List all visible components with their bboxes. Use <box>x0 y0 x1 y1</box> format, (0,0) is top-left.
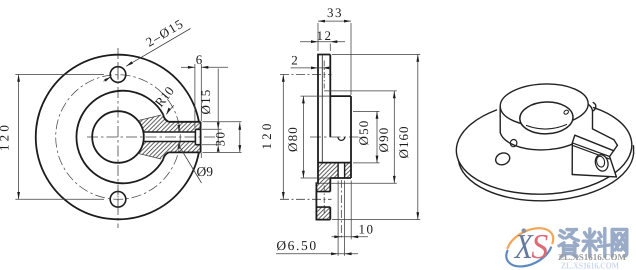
lug hole outer <box>594 153 610 172</box>
lug right top corner edge <box>614 140 618 146</box>
dim 120 ext bottom <box>15 198 104 200</box>
bolt hole top <box>110 67 126 83</box>
dim D90 ext lines <box>316 91 397 183</box>
dim D90 arrows <box>393 91 396 183</box>
counterbore rect <box>195 129 200 144</box>
dim D15 ext top <box>202 128 222 130</box>
dim D160 line <box>417 54 419 219</box>
svg-text:Ø80: Ø80 <box>285 126 300 152</box>
main centerline <box>310 136 359 138</box>
hole centerline ext <box>340 180 342 239</box>
dim D50 line <box>376 111 378 162</box>
hub silhouette fill <box>500 105 592 154</box>
dim 120 dimension line <box>18 75 20 200</box>
CJK char zi <box>559 230 579 257</box>
dim 30 line <box>239 123 241 153</box>
logo X dot <box>522 228 527 233</box>
dim D15 line <box>217 69 219 145</box>
plate outline <box>316 55 330 220</box>
hub right silhouette <box>589 105 593 129</box>
dim 120s arrows <box>282 75 285 200</box>
hatch region plate+hub lower <box>316 163 351 192</box>
dim D15 arrow top <box>217 122 220 129</box>
dim D90 line <box>393 91 395 183</box>
logo oval blue arc <box>506 248 551 267</box>
svg-text:Ø6.50: Ø6.50 <box>276 238 317 253</box>
dim 120s line <box>282 75 284 200</box>
dim 120 arrow bottom <box>17 192 20 199</box>
dim 10 arrows <box>334 235 358 238</box>
svg-text:30: 30 <box>213 131 228 147</box>
CJK char liao <box>583 229 609 257</box>
dim D15 arrow bottom <box>217 145 220 152</box>
bolt circle (dash-dot) <box>56 75 181 200</box>
lug bottom edge <box>572 175 616 177</box>
svg-text:Ø160: Ø160 <box>396 126 411 159</box>
dim 6 line left <box>181 66 195 68</box>
lug top back edge <box>593 129 614 140</box>
dim 10 line <box>332 236 369 238</box>
hub left edge <box>499 107 501 133</box>
bolt hole vertical centerline top <box>323 61 325 89</box>
fillet R10 top <box>163 114 168 122</box>
bolt hole bottom edges <box>316 192 330 208</box>
dim D6.5 ext lines <box>338 181 345 256</box>
lug right lower edge <box>610 157 617 177</box>
slit line 1 <box>572 143 609 157</box>
break line upper <box>139 115 161 120</box>
bolt hole vertical centerline bottom <box>323 186 325 214</box>
D6.5 hole edges <box>338 163 345 178</box>
dim 120 arrow top <box>17 75 20 82</box>
outer circle D160 <box>36 55 199 220</box>
bolt hole centerline top <box>280 74 332 76</box>
dim D80 arrows <box>302 96 305 178</box>
disc bolt hole <box>494 151 512 167</box>
dim 30 arrow bottom <box>238 145 241 152</box>
dim D9 arrow top <box>178 125 181 132</box>
dim 12 arrows <box>311 40 337 43</box>
dim D9 arrow bottom <box>178 142 181 149</box>
hub bottom edge <box>330 177 351 179</box>
slit line 2 <box>573 145 610 159</box>
leader 2-D15 <box>126 29 190 67</box>
horizontal centerline <box>87 136 217 138</box>
leader R10 <box>166 105 174 114</box>
leader R10 arrow <box>166 108 170 115</box>
bolt hole bottom <box>110 192 126 208</box>
dim 30 ext bottom <box>203 151 242 153</box>
svg-text:ZL.XS1616.COM: ZL.XS1616.COM <box>561 261 619 270</box>
dim 2 arrows <box>311 67 329 70</box>
dim D50 arrows <box>376 111 379 162</box>
disc top face <box>456 108 631 195</box>
dim D160 ext lines <box>332 54 420 219</box>
hub wall small hole <box>509 139 517 148</box>
dim 30 ext top <box>203 121 242 123</box>
plate right face lower segments <box>329 178 331 220</box>
svg-text:120: 120 <box>259 120 274 149</box>
svg-text:Ø15: Ø15 <box>198 89 213 115</box>
leader 2-D15 tail segment <box>104 77 111 82</box>
lug left front edge <box>572 135 575 174</box>
svg-text:2: 2 <box>291 53 298 68</box>
fillet R10 bottom <box>163 152 168 159</box>
hub top edge thin inner <box>322 95 330 97</box>
dim 30 arrow top <box>238 123 241 130</box>
dim 6 arrow right <box>201 66 208 69</box>
dim D6.5 arrows <box>331 252 352 255</box>
disc side wall left joint <box>457 152 459 160</box>
dim D6.5 line <box>276 253 358 255</box>
hatch region plate bottom <box>316 207 330 220</box>
svg-text:Ø9: Ø9 <box>197 164 214 179</box>
dim D50 ext lines <box>353 111 380 162</box>
lug front top edge <box>575 135 614 151</box>
bolt hole centerline bottom <box>280 198 332 200</box>
dim D80 ext lines <box>301 96 331 178</box>
plate right face <box>329 55 331 138</box>
svg-text:Ø90: Ø90 <box>376 127 391 153</box>
break line lower <box>139 154 161 159</box>
svg-text:Ø50: Ø50 <box>356 120 371 146</box>
bore ellipse <box>519 101 573 135</box>
svg-text:6: 6 <box>196 52 203 67</box>
leader 2-D15 arrow <box>126 61 133 66</box>
dim 6 arrow left <box>188 66 195 69</box>
svg-text:2–Ø15: 2–Ø15 <box>143 16 186 50</box>
svg-text:10: 10 <box>359 222 375 237</box>
CJK char wang <box>612 230 627 257</box>
vertical centerline <box>117 48 119 228</box>
dim D9 tails <box>178 123 180 149</box>
lug right face <box>200 122 202 153</box>
dim 12 ext right <box>329 44 331 52</box>
lug top edge <box>169 121 201 123</box>
screw hole bottom line <box>143 141 195 143</box>
lug slit right vee <box>610 145 618 156</box>
lug hole inner <box>595 155 605 168</box>
svg-text:33: 33 <box>327 5 343 20</box>
far wall hole arc <box>338 137 345 140</box>
recess step line <box>321 55 323 163</box>
bore inner bottom arc <box>527 125 567 130</box>
hatch broken-out section upper region <box>139 114 201 132</box>
hub top ellipse <box>499 82 588 127</box>
dim 6 ext right <box>200 64 202 158</box>
dim 33 line <box>318 20 351 22</box>
bore bottom edge <box>318 162 351 164</box>
hub bottom arc <box>500 133 578 150</box>
hatch broken-out section lower region <box>139 142 201 160</box>
dim D160 arrows <box>416 54 419 219</box>
leader D9 <box>179 146 202 184</box>
lug fill <box>572 129 617 177</box>
hole slot D6.5 white <box>338 162 345 178</box>
dim 120 ext top <box>15 74 104 76</box>
dim 12 line <box>300 41 345 43</box>
bolt hole peek behind hub <box>592 103 595 112</box>
dim 10 ext lines <box>350 181 352 240</box>
bolt hole top centerline <box>117 64 119 85</box>
hub top edge <box>330 95 351 97</box>
dim 2 line <box>291 67 328 69</box>
disc side wall arc <box>458 154 633 201</box>
screw hole top line <box>143 131 195 133</box>
leader 2-D15 tail arrow <box>104 77 111 82</box>
dim D15 ext bottom <box>202 144 222 146</box>
dim D80 line <box>302 96 304 178</box>
D90 circle <box>76 91 163 184</box>
dim 33 arrows <box>318 20 351 23</box>
dim 6 ext left <box>194 64 196 128</box>
bore wall small hole <box>563 109 569 115</box>
dim 33 ext lines <box>318 23 351 95</box>
hub right face <box>350 96 352 178</box>
bore circle D50 <box>92 111 144 163</box>
logo oval orange arc <box>508 228 554 248</box>
dim 6 line right <box>201 66 228 68</box>
svg-text:S: S <box>531 227 548 266</box>
disc side wall right joint <box>633 146 635 154</box>
svg-text:120: 120 <box>0 122 12 151</box>
svg-text:12: 12 <box>317 28 333 43</box>
bolt hole bottom centerline <box>117 189 119 210</box>
lug bottom edge <box>169 151 201 153</box>
